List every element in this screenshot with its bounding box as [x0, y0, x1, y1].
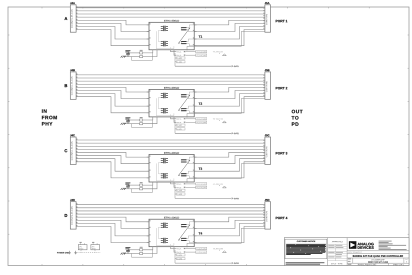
wire OUT1 output: [175, 65, 233, 67]
T3 pin stubs: [147, 157, 197, 178]
net flag A_MID lower: [175, 61, 185, 63]
net label OUT1: [234, 66, 239, 67]
wire port3 termination lower loop: [132, 185, 153, 192]
T1 primary winding 2: [161, 41, 168, 46]
net flag C_MID lower: [175, 193, 185, 195]
wire port1 line7 to transformer pin3: [76, 26, 149, 39]
wire port1 pair3 straight: [76, 13, 265, 15]
T2 internal connection wires: [156, 98, 174, 116]
T4 primary winding 2: [161, 238, 168, 243]
wire port4 line8 to transformer pin4: [76, 227, 149, 243]
T1 primary winding 1: [161, 26, 168, 31]
wire port3 center tap pin to termination resistor R5: [143, 182, 153, 185]
wire OUT3 output: [175, 198, 233, 200]
jumper JP2 shield: [91, 242, 100, 250]
label PORT 1: [276, 20, 288, 22]
wire port1 termination lower loop: [132, 53, 153, 60]
T2 pin stubs: [147, 92, 197, 113]
wire port4 transformer tap to net RX4_A: [171, 247, 177, 249]
wire port4 line7 to transformer pin3: [76, 223, 149, 236]
row letter A: [65, 17, 68, 20]
row letter D: [65, 214, 68, 217]
T4 crossover diagonal: [178, 225, 190, 241]
resistor R3 termination: [140, 117, 143, 121]
wire port1 transformer pin6 to J5A: [194, 23, 265, 31]
wire port2 termination lower loop: [132, 120, 153, 127]
wire port2 transformer pin6 to J5B: [194, 90, 265, 98]
T3 secondary choke 2: [181, 174, 186, 176]
transformer T1 ETH1-230LD magnetics: [149, 20, 194, 50]
connector J4C (RJ45 in, port 3): [70, 134, 77, 164]
net flag C_MID upper: [175, 189, 185, 191]
T2 primary winding 2: [161, 108, 168, 113]
wire port4 center tap pin to termination resistor R8: [143, 247, 157, 254]
Analog Devices logo mark: [349, 241, 357, 249]
wire port4 termination lower loop: [132, 250, 153, 257]
net label RX2_A row: [177, 118, 207, 120]
wire port2 center tap pin to termination resistor R4: [143, 117, 157, 124]
wire port2 transformer pin8 to J5B: [194, 97, 265, 113]
approvals column: [328, 238, 348, 266]
approvals entries text: [328, 245, 343, 257]
net label RX4_A row: [177, 247, 207, 249]
net label RX3_A row: [177, 183, 207, 185]
wire port2 pair4 straight: [76, 83, 265, 85]
demo circuit 2146B text: [368, 261, 388, 262]
net label RX4_B row: [177, 251, 207, 253]
T2 crossover diagonal: [178, 95, 190, 111]
connector J5A (RJ45 out, port 1): [263, 2, 270, 32]
net flag D_MID upper: [175, 254, 185, 256]
transformer T2 ETH1-230LD magnetics: [149, 87, 194, 117]
T3 choke lead wires: [181, 157, 194, 178]
wire port2 center tap pin to termination resistor R3: [143, 117, 153, 120]
T1 choke lead wires: [181, 25, 194, 46]
Analog Devices logo text: [357, 243, 373, 249]
title block outer frame: [284, 238, 409, 266]
T2 choke lead wires: [181, 92, 194, 113]
wire port1 line5 to transformer pin1: [76, 20, 149, 25]
wire port4 pair3 straight: [76, 210, 265, 212]
wire port2 transformer pin5 to J5B: [194, 87, 265, 92]
customer notice box: [285, 239, 327, 259]
wire port2 transformer tap to net RX2_B: [174, 117, 176, 122]
wire port3 mid bus vertical: [174, 185, 176, 198]
net flag B_MID upper: [175, 124, 185, 126]
size code cells: [348, 258, 408, 263]
wire port4 center tap pin to termination resistor R7: [143, 247, 153, 250]
resistor R4 termination: [140, 123, 143, 125]
wire port4 transformer pin6 to J5D: [194, 220, 265, 228]
net flag B_MID lower: [175, 128, 185, 130]
wire port2 line5 to transformer pin1: [76, 87, 149, 92]
transformer T3 ETH1-230LD magnetics: [149, 152, 194, 182]
wire port4 transformer pin7 to J5D: [194, 223, 265, 236]
ground port1 termination: [121, 56, 126, 58]
Analog Devices address text: [379, 241, 407, 250]
T4 internal connection wires: [156, 227, 174, 245]
approvals row lines: [328, 244, 348, 260]
wire port2 transformer tap to net RX2_A: [171, 117, 177, 119]
ground port3 termination: [121, 188, 126, 190]
wire port1 center tap pin to termination resistor R2: [143, 50, 157, 57]
label PORT 4: [276, 217, 288, 219]
net label +BT_MAA7_MID port2: [213, 118, 226, 122]
wire port2 line8 to transformer pin4: [76, 97, 149, 113]
resistor R8 termination: [140, 252, 143, 254]
resistor R6 termination: [140, 188, 143, 190]
jumper JP1 shield: [78, 242, 87, 250]
resistor R1 termination: [140, 50, 143, 54]
T4 secondary choke 2: [181, 238, 186, 240]
capacitor C4 termination: [125, 247, 130, 253]
wire port3 line5 to transformer pin1: [76, 152, 149, 157]
T2 secondary choke 1: [181, 95, 186, 97]
wire port3 transformer tap to net RX3_B: [174, 182, 176, 187]
title block row dividers: [347, 251, 409, 263]
wire port4 transformer pin8 to J5D: [194, 227, 265, 243]
wire port2 transformer pin7 to J5B: [194, 94, 265, 107]
wire port3 line8 to transformer pin4: [76, 162, 149, 178]
wire port3 transformer pin8 to J5C: [194, 162, 265, 178]
wire port1 termination to capacitor node: [125, 53, 140, 57]
net label +BT_MAA7_MID port1: [213, 51, 226, 55]
wire port4 transformer pin5 to J5D: [194, 217, 265, 222]
wire port1 line8 to transformer pin4: [76, 30, 149, 46]
power ground symbols: [68, 251, 77, 254]
capacitor C1 termination: [125, 50, 130, 56]
T4 choke lead wires: [181, 222, 194, 243]
part number LTC4266AIUHF: [371, 259, 384, 260]
net label RX3_B row: [177, 186, 207, 188]
T3 primary winding 2: [161, 173, 168, 178]
wire port4 mid bus vertical: [174, 250, 176, 263]
connector J5C (RJ45 out, port 3): [263, 134, 270, 164]
wire port4 pair1 straight: [76, 204, 265, 206]
label POWER GND: [57, 252, 69, 253]
wire port3 pair4 straight: [76, 148, 265, 150]
label T4: [199, 232, 203, 234]
wire port2 J5B shield return: [187, 99, 265, 118]
wire OUT2 output: [175, 133, 233, 135]
row letter B: [65, 84, 68, 87]
wire port1 transformer tap to net RX1_A: [171, 50, 177, 52]
wire port1 transformer tap to net RX1_B: [174, 50, 176, 55]
wire port3 transformer pin7 to J5C: [194, 159, 265, 172]
wire port1 center tap pin to termination resistor R1: [143, 50, 153, 53]
T1 pin stubs: [147, 25, 197, 46]
wire port4 transformer tap to net RX4_B: [174, 247, 176, 252]
T3 secondary choke 1: [181, 160, 186, 162]
customer notice paragraph text: [286, 244, 326, 255]
wire port1 mid bus vertical: [174, 53, 176, 66]
row letter C: [65, 149, 68, 152]
wire port1 line6 to transformer pin2: [76, 23, 149, 31]
wire port2 line7 to transformer pin3: [76, 94, 149, 107]
net label RX2_B row: [177, 121, 207, 123]
connector J4A (RJ45 in, port 1): [70, 2, 77, 32]
T3 primary winding 1: [161, 158, 168, 163]
net label OUT2: [234, 133, 239, 134]
resistor R5 termination: [140, 182, 143, 186]
T2 primary winding 1: [161, 93, 168, 98]
net label RX1_A row: [177, 51, 207, 53]
wire port3 transformer pin5 to J5C: [194, 152, 265, 157]
T4 pin number marks: [150, 220, 194, 242]
label T1: [199, 35, 203, 37]
capacitor C3 termination: [125, 182, 130, 188]
net label +BT_MAA7_MID port4: [213, 248, 226, 252]
label IN FROM PHY: [42, 109, 57, 125]
wire port4 line6 to transformer pin2: [76, 220, 149, 228]
label T3: [199, 168, 202, 170]
project schematic text: [348, 252, 361, 253]
wire port3 termination to capacitor node: [125, 185, 140, 189]
wire port3 pair2 straight: [76, 142, 265, 144]
date row: [348, 263, 404, 265]
wire port2 termination to capacitor node: [125, 120, 140, 124]
T1 secondary choke 2: [181, 42, 186, 44]
wire port2 pair3 straight: [76, 80, 265, 82]
customer notice footer text: [286, 262, 325, 264]
connector J4D (RJ45 in, port 4): [70, 199, 77, 229]
label T2: [199, 103, 202, 105]
wire port1 J5A shield return: [187, 31, 265, 50]
wire port4 pair2 straight: [76, 207, 265, 209]
wire port2 pair2 straight: [76, 77, 265, 79]
resistor R7 termination: [140, 247, 143, 251]
wire port1 pair2 straight: [76, 10, 265, 12]
T4 pin stubs: [147, 222, 197, 243]
T3 pin number marks: [150, 156, 194, 178]
wire port4 pair4 straight: [76, 213, 265, 215]
wire port2 pair1 straight: [76, 74, 265, 76]
wire port3 transformer tap to net RX3_A: [171, 182, 177, 184]
label PORT 2: [276, 87, 288, 89]
wire port1 transformer pin7 to J5A: [194, 26, 265, 39]
net label RX1_B row: [177, 54, 207, 56]
wire port3 line6 to transformer pin2: [76, 156, 149, 164]
ground port4 termination: [121, 253, 126, 255]
wire port4 termination to capacitor node: [125, 250, 140, 254]
T1 internal connection wires: [156, 30, 174, 48]
wire port3 center tap pin to termination resistor R6: [143, 182, 157, 189]
connector J4B (RJ45 in, port 2): [70, 69, 77, 99]
T2 pin number marks: [150, 90, 194, 112]
wire port1 pair4 straight: [76, 16, 265, 18]
resistor R2 termination: [140, 56, 143, 58]
wire port3 pair1 straight: [76, 139, 265, 141]
T4 primary winding 1: [161, 223, 168, 228]
ground port2 termination: [121, 123, 126, 125]
wire port4 line5 to transformer pin1: [76, 217, 149, 222]
label PORT 3: [276, 152, 288, 154]
net label OUT3: [234, 198, 239, 199]
wire port1 transformer pin8 to J5A: [194, 30, 265, 46]
connector J5D (RJ45 out, port 4): [263, 199, 270, 229]
net label OUT4: [234, 263, 239, 264]
T1 secondary choke 1: [181, 28, 186, 30]
wire port4 J5D shield return: [187, 228, 265, 247]
wire port3 J5C shield return: [187, 164, 265, 183]
wire port3 pair3 straight: [76, 145, 265, 147]
T3 crossover diagonal: [178, 160, 190, 176]
net flag A_MID upper: [175, 57, 185, 59]
wire port1 transformer pin5 to J5A: [194, 20, 265, 25]
transformer T4 ETH1-230LD magnetics: [149, 217, 194, 247]
label OUT TO PD: [292, 110, 303, 126]
net flag D_MID lower: [175, 258, 185, 260]
capacitor C2 termination: [125, 117, 130, 123]
sheet title BOEING 24T PoE QUAD PSE CONTROLLER: [353, 255, 403, 257]
T1 crossover diagonal: [178, 28, 190, 44]
scale none cell: [331, 263, 343, 264]
T1 pin number marks: [150, 23, 194, 45]
jumper ground dashed bus: [77, 250, 100, 253]
net label +BT_MAA7_MID port3: [213, 184, 226, 188]
wire port2 mid bus vertical: [174, 120, 176, 133]
wire port3 transformer pin6 to J5C: [194, 156, 265, 164]
T2 secondary choke 2: [181, 109, 186, 111]
wire OUT4 output: [175, 262, 233, 264]
T4 secondary choke 1: [181, 225, 186, 227]
wire port1 pair1 straight: [76, 7, 265, 9]
T3 internal connection wires: [156, 163, 174, 181]
connector J5B (RJ45 out, port 2): [263, 69, 270, 99]
wire port3 line7 to transformer pin3: [76, 159, 149, 172]
wire port2 line6 to transformer pin2: [76, 90, 149, 98]
